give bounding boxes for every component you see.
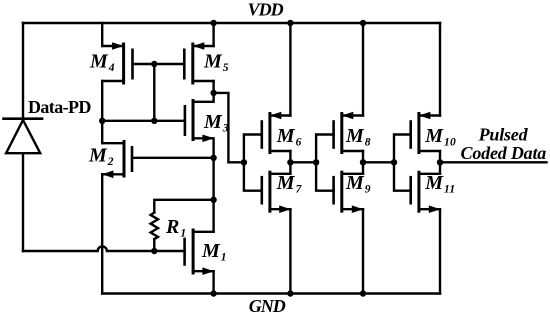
svg-text:VDD: VDD: [248, 0, 284, 20]
node stage1 input: [241, 159, 247, 165]
transistor M6: [262, 112, 291, 153]
wire stage2 output to stage3 input: [363, 161, 394, 163]
wire gate node down to M3 gate line: [153, 64, 155, 121]
wire GND rail: [102, 292, 440, 295]
wire M4 drain down to M2 drain: [101, 81, 103, 143]
node VDD-M8 junction: [360, 20, 366, 26]
svg-text:Pulsed: Pulsed: [478, 124, 529, 144]
transistor M5: [184, 42, 213, 83]
transistor M3: [185, 93, 214, 158]
wire VDD to M6 source: [289, 23, 291, 116]
wire M9 source to GND: [362, 209, 364, 293]
svg-text:Data-PD: Data-PD: [28, 97, 91, 117]
wire stage1 output to stage2 input: [290, 161, 316, 163]
transistor M7: [262, 172, 291, 213]
node stage2 input: [313, 159, 319, 165]
transistor M4: [102, 42, 132, 83]
wire M3 gate line: [102, 120, 185, 122]
wire M5 source to VDD: [212, 23, 214, 46]
resistor R1: [151, 200, 214, 251]
wire M2 gate line to node B: [132, 157, 214, 159]
node R1 bottom M1 gate: [151, 248, 157, 254]
wire M6 drain to M7 drain: [289, 151, 291, 174]
node stage2 output: [360, 159, 366, 165]
wire VDD rail: [23, 22, 440, 25]
node A M5 drain M3 drain: [210, 90, 216, 96]
wire M8 drain to M9 drain: [362, 151, 364, 174]
wire VDD to photodiode cathode: [22, 23, 24, 119]
transistor M9: [334, 172, 364, 213]
svg-text:GND: GND: [249, 296, 286, 316]
wire node A bypass to inverter input: [214, 93, 244, 162]
transistor M1: [185, 230, 214, 275]
wire VDD to M10 source: [439, 23, 441, 116]
wire output line to Pulsed Coded Data: [440, 161, 547, 163]
label Pulsed Coded Data: [461, 124, 547, 163]
node M3 gate at gate link column: [151, 118, 157, 124]
wire M4 source to VDD: [101, 23, 103, 46]
node stage3 output: [437, 159, 443, 165]
wire M2 source down to GND: [101, 174, 103, 293]
node stage1 output: [287, 159, 293, 165]
wire stage2 gate bus: [316, 135, 334, 191]
wire M11 source to GND: [439, 209, 441, 293]
node B M3 source M2 gate: [210, 155, 216, 161]
transistor M2: [102, 142, 132, 179]
wire M10 drain to M11 drain: [439, 151, 441, 174]
wire stage3 gate bus: [394, 135, 411, 191]
photodiode Data-PD: [4, 119, 43, 154]
node gate link M4-M5: [151, 61, 157, 67]
wire gate link M4-M5: [133, 63, 185, 65]
transistor M8: [334, 112, 363, 153]
wire photodiode anode down: [22, 153, 24, 251]
node VDD-M5 junction: [210, 20, 216, 26]
wire stage1 gate bus: [244, 135, 262, 191]
wire M5 drain to node A: [212, 81, 214, 93]
node R1 top: [210, 197, 216, 203]
node VDD-M6 junction: [287, 20, 293, 26]
node GND-M1 junction: [210, 290, 216, 296]
transistor M10: [411, 112, 440, 153]
transistor M11: [411, 172, 441, 213]
node stage3 input: [391, 159, 397, 165]
wire photodiode to M1 gate with hop over M2 source line: [23, 246, 185, 251]
wire VDD to M8 source: [362, 23, 364, 116]
svg-text:Coded Data: Coded Data: [461, 143, 547, 163]
node M3 gate at M4 drain column: [99, 118, 105, 124]
node GND-M9 junction: [360, 290, 366, 296]
wire node B down to M1 drain: [212, 158, 214, 232]
wire M7 source to GND: [289, 209, 291, 293]
wire M1 source to GND: [212, 271, 214, 293]
node GND-M7 junction: [287, 290, 293, 296]
